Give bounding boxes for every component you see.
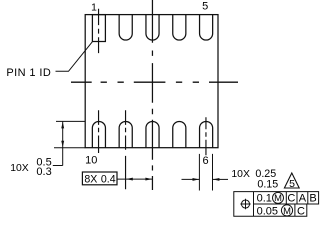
svg-text:A: A xyxy=(299,193,307,205)
svg-text:10X: 10X xyxy=(10,163,29,174)
svg-text:0.15: 0.15 xyxy=(257,179,278,191)
svg-text:M: M xyxy=(274,192,282,203)
svg-text:1: 1 xyxy=(91,3,97,14)
svg-text:0.3: 0.3 xyxy=(36,166,51,178)
svg-text:0.05: 0.05 xyxy=(257,206,278,218)
svg-text:B: B xyxy=(309,193,316,205)
svg-text:C: C xyxy=(297,206,305,218)
svg-text:PIN 1 ID: PIN 1 ID xyxy=(6,67,51,79)
svg-text:M: M xyxy=(283,205,291,216)
svg-text:10: 10 xyxy=(85,155,97,167)
svg-text:6: 6 xyxy=(202,155,208,167)
svg-text:8X: 8X xyxy=(84,174,97,186)
svg-text:C: C xyxy=(287,193,295,205)
svg-text:5: 5 xyxy=(202,0,208,12)
svg-text:5: 5 xyxy=(289,178,295,190)
svg-text:0.4: 0.4 xyxy=(101,174,116,186)
svg-text:0.1: 0.1 xyxy=(257,193,272,205)
svg-text:10X: 10X xyxy=(231,169,250,180)
